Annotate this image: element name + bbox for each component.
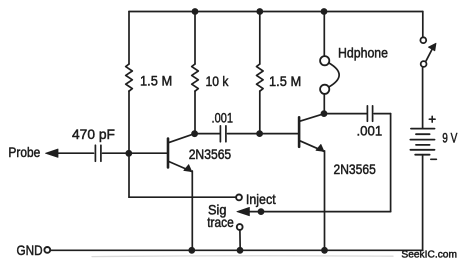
svg-text:470 pF: 470 pF xyxy=(72,126,115,142)
switch S1 lever with arrow xyxy=(426,43,436,61)
headphone jack upper circle xyxy=(320,56,329,65)
switch S1 lower contact xyxy=(421,61,427,67)
node: Q2 base junction xyxy=(256,130,263,137)
capacitor C1 470 pF xyxy=(95,145,101,161)
label GND xyxy=(17,242,43,258)
wire: inject stub horizontal xyxy=(129,196,236,198)
terminal: Inject open circle xyxy=(236,195,242,201)
wire: feedback vertical xyxy=(390,114,392,212)
resistor R3 1.5 M xyxy=(257,64,264,91)
svg-text:SeekIC.com: SeekIC.com xyxy=(401,248,457,260)
node: probe junction xyxy=(125,150,132,157)
battery B1 plus sign xyxy=(429,116,435,122)
wire: switch to battery xyxy=(422,67,424,129)
battery B1 minus sign xyxy=(431,158,437,160)
battery B1 9V plates xyxy=(410,129,434,155)
headphone jack lower circle xyxy=(320,85,329,94)
wire: left branch vertical (R1 to probe node) xyxy=(128,91,130,150)
wire: R3 branch vertical bottom xyxy=(259,91,261,134)
wire: headphone branch top xyxy=(323,12,325,57)
label Sig xyxy=(208,201,226,217)
svg-text:Inject: Inject xyxy=(246,191,276,207)
svg-text:2N3565: 2N3565 xyxy=(189,146,232,162)
label 470 pF xyxy=(72,126,115,142)
wire: C3 to feedback corner xyxy=(374,113,390,115)
wire: Q2 collector node to C3 xyxy=(324,113,367,115)
wire: C1 to probe node xyxy=(103,152,128,154)
capacitor C3 .001 xyxy=(367,106,372,122)
label trace xyxy=(207,214,234,230)
wire: sig trace circle to ground rail xyxy=(239,230,241,250)
terminal: Sig trace open circle xyxy=(237,224,243,230)
wire: left branch vertical (probe node to inject stub) xyxy=(128,153,130,197)
svg-text:trace: trace xyxy=(207,214,234,230)
wire: probe node to Q1 base xyxy=(129,152,167,154)
wire: Q2 base node to Q2 base xyxy=(260,133,298,135)
svg-text:Probe: Probe xyxy=(8,144,40,160)
wire: R3 branch vertical top xyxy=(259,12,261,65)
node: top rail at R3 xyxy=(256,8,263,15)
svg-text:10 k: 10 k xyxy=(206,73,230,89)
wire: left branch vertical (top rail to R1) xyxy=(128,12,130,65)
node: top rail at 10k xyxy=(192,8,199,15)
wire: 10k branch vertical bottom to Q1 collector node xyxy=(194,91,196,134)
svg-text:.001: .001 xyxy=(212,110,234,126)
svg-text:2N3565: 2N3565 xyxy=(334,161,376,177)
node: Q2 emitter at ground rail xyxy=(321,247,328,254)
terminal: GND open circle xyxy=(44,247,50,253)
label Inject xyxy=(246,191,276,207)
transistor Q1 emitter lead with arrow xyxy=(169,162,192,172)
svg-text:GND: GND xyxy=(17,242,43,258)
wire: ground rail xyxy=(50,249,423,251)
node: Q1 collector junction xyxy=(191,130,198,137)
node: Q1 emitter at ground rail xyxy=(188,247,195,254)
transistor Q1 2N3565 base bar xyxy=(167,139,170,168)
label battery value 9 V xyxy=(442,130,458,146)
svg-text:9 V: 9 V xyxy=(442,130,458,146)
wire: battery to ground rail corner xyxy=(422,155,424,251)
svg-text:1.5 M: 1.5 M xyxy=(269,73,301,89)
wire: 10k branch vertical top xyxy=(194,12,196,65)
node: sig trace stub at ground rail xyxy=(237,247,244,254)
scan artifact streak (decorative) xyxy=(92,255,393,258)
watermark SeekIC.com xyxy=(401,248,457,260)
label C2 value .001 xyxy=(212,110,234,126)
headphone cord arc xyxy=(329,63,339,87)
node: Q2 collector junction xyxy=(321,110,328,117)
resistor R2 10 k xyxy=(192,64,199,91)
wire: sig-trace feedback horizontal with left arrowhead xyxy=(237,207,391,215)
label Hdphone xyxy=(338,45,388,61)
wire: Q1 collector node to C2 xyxy=(195,133,220,135)
transistor Q1 collector lead xyxy=(169,134,193,142)
label Q1 2N3565 xyxy=(189,146,232,162)
wire: C2 to Q2 base node xyxy=(228,133,257,135)
wire: Q2 emitter down to ground rail xyxy=(324,151,326,251)
label R2 value 10 k xyxy=(206,73,230,89)
svg-text:Hdphone: Hdphone xyxy=(338,45,388,61)
resistor R1 1.5 M xyxy=(126,64,133,91)
wire: Q1 emitter down to ground rail xyxy=(191,171,193,250)
wire: headphone branch bottom to Q2 collector node xyxy=(323,94,325,114)
label R3 value 1.5 M xyxy=(269,73,301,89)
label C3 value .001 xyxy=(357,123,383,139)
label Q2 2N3565 xyxy=(334,161,376,177)
transistor Q2 emitter lead with arrow xyxy=(300,141,324,152)
node: top rail at headphone xyxy=(321,8,328,15)
wire: probe lead with left arrowhead xyxy=(46,149,94,157)
capacitor C2 .001 xyxy=(220,126,226,142)
svg-text:1.5 M: 1.5 M xyxy=(140,72,172,88)
svg-text:.001: .001 xyxy=(357,123,383,139)
transistor Q2 2N3565 base bar xyxy=(298,117,301,147)
switch S1 upper contact xyxy=(420,37,426,43)
label R1 value 1.5 M xyxy=(140,72,172,88)
wire: right branch top rail to switch xyxy=(422,12,424,38)
node: dot on sig-trace feedback line xyxy=(258,208,265,215)
wire: top supply rail xyxy=(129,11,423,13)
transistor Q2 collector lead xyxy=(300,114,323,121)
label Probe xyxy=(8,144,40,160)
